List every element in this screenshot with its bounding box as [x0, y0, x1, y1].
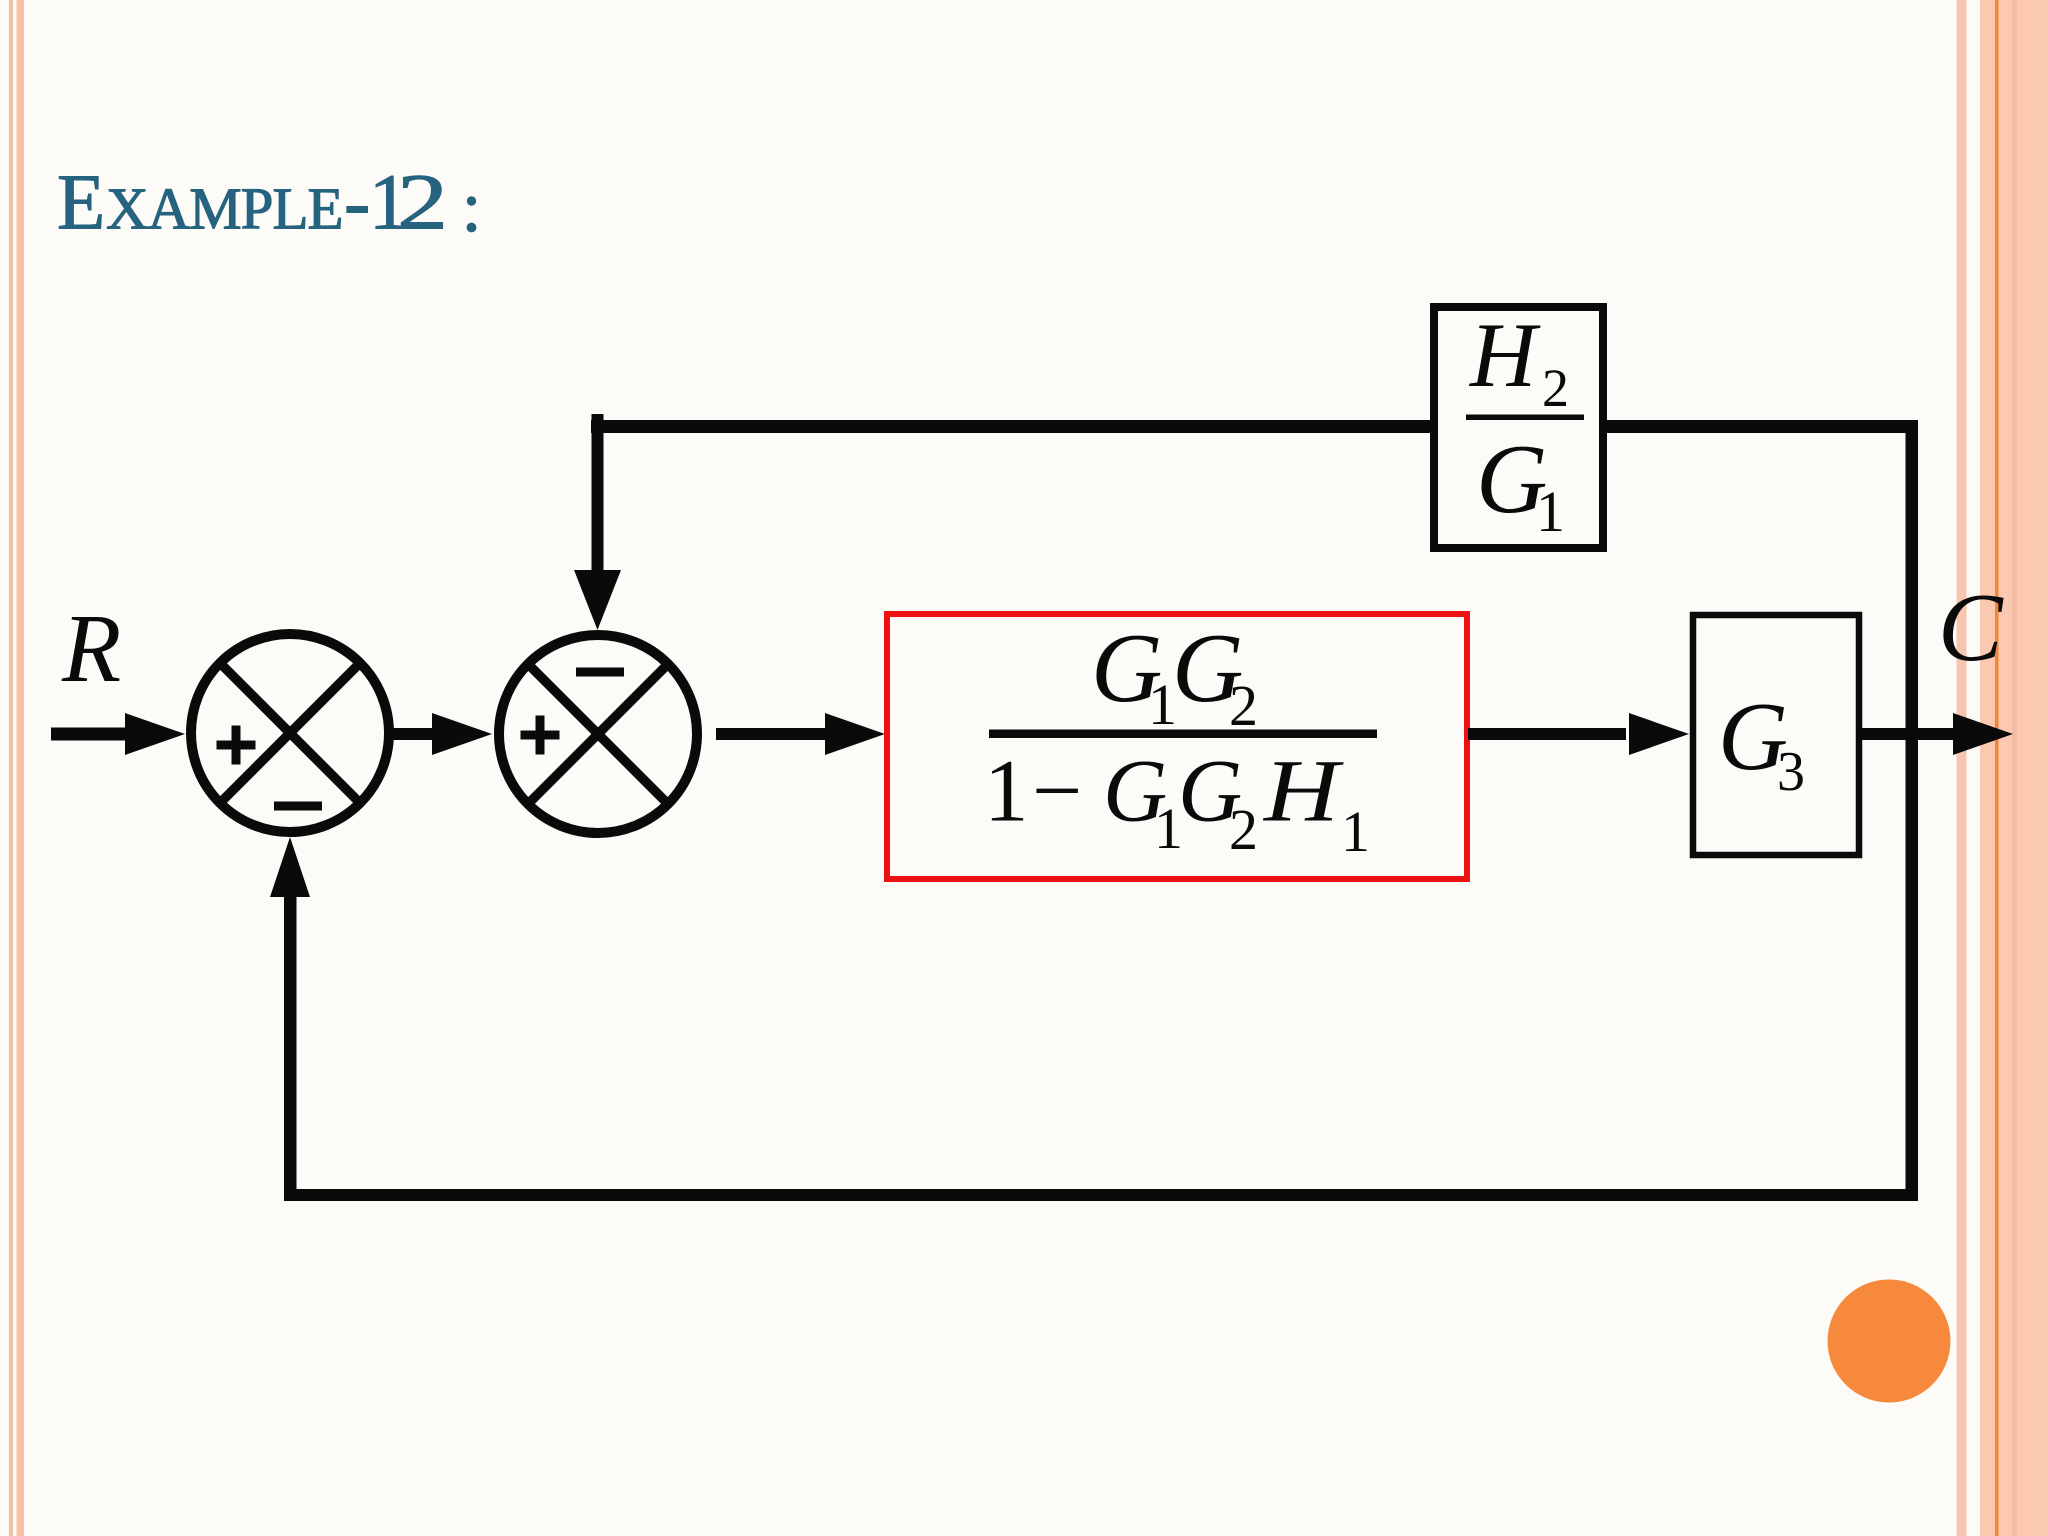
svg-text:−: −	[1032, 743, 1082, 841]
wire bottom feedback	[284, 1189, 1918, 1201]
svg-text:H: H	[1263, 743, 1345, 841]
wire red block to G3	[1468, 713, 1689, 755]
block G3	[1693, 615, 1859, 855]
svg-text:3: 3	[1777, 741, 1805, 803]
title	[57, 160, 476, 247]
svg-text:2: 2	[1542, 358, 1569, 418]
summing junction S2	[499, 635, 697, 833]
svg-text:R: R	[61, 595, 121, 702]
svg-text:C: C	[1938, 574, 2004, 681]
wire S2 to red block	[716, 713, 885, 755]
wire feedback arrow into S1	[270, 837, 310, 1201]
node C label	[1938, 574, 2004, 681]
svg-text:2: 2	[1229, 673, 1258, 738]
svg-text:2: 2	[397, 160, 448, 247]
wire feedback arrow into S2	[574, 414, 621, 630]
wire S1 to S2	[392, 713, 492, 755]
wire top feedback right segment	[1603, 420, 1918, 433]
summing junction S1	[191, 634, 389, 832]
block G1G2/(1-G1G2H1)	[887, 614, 1467, 879]
decoration orange dot	[1828, 1280, 1951, 1403]
wire output C arrow	[1858, 713, 2013, 755]
wire takeoff vertical	[1906, 420, 1919, 1201]
wire top feedback left segment	[591, 420, 1434, 433]
block H2/G1	[1434, 304, 1603, 548]
svg-text:1: 1	[1341, 799, 1370, 864]
svg-text:1: 1	[1536, 479, 1565, 544]
node R label	[61, 595, 121, 702]
wire input arrow R	[51, 713, 185, 755]
svg-text:2: 2	[1229, 797, 1258, 862]
svg-text:XAMPLE: XAMPLE	[106, 176, 343, 242]
svg-text:E: E	[57, 160, 105, 247]
svg-text:1: 1	[984, 743, 1029, 841]
svg-text:H: H	[1469, 304, 1541, 406]
svg-text:-: -	[344, 160, 370, 247]
